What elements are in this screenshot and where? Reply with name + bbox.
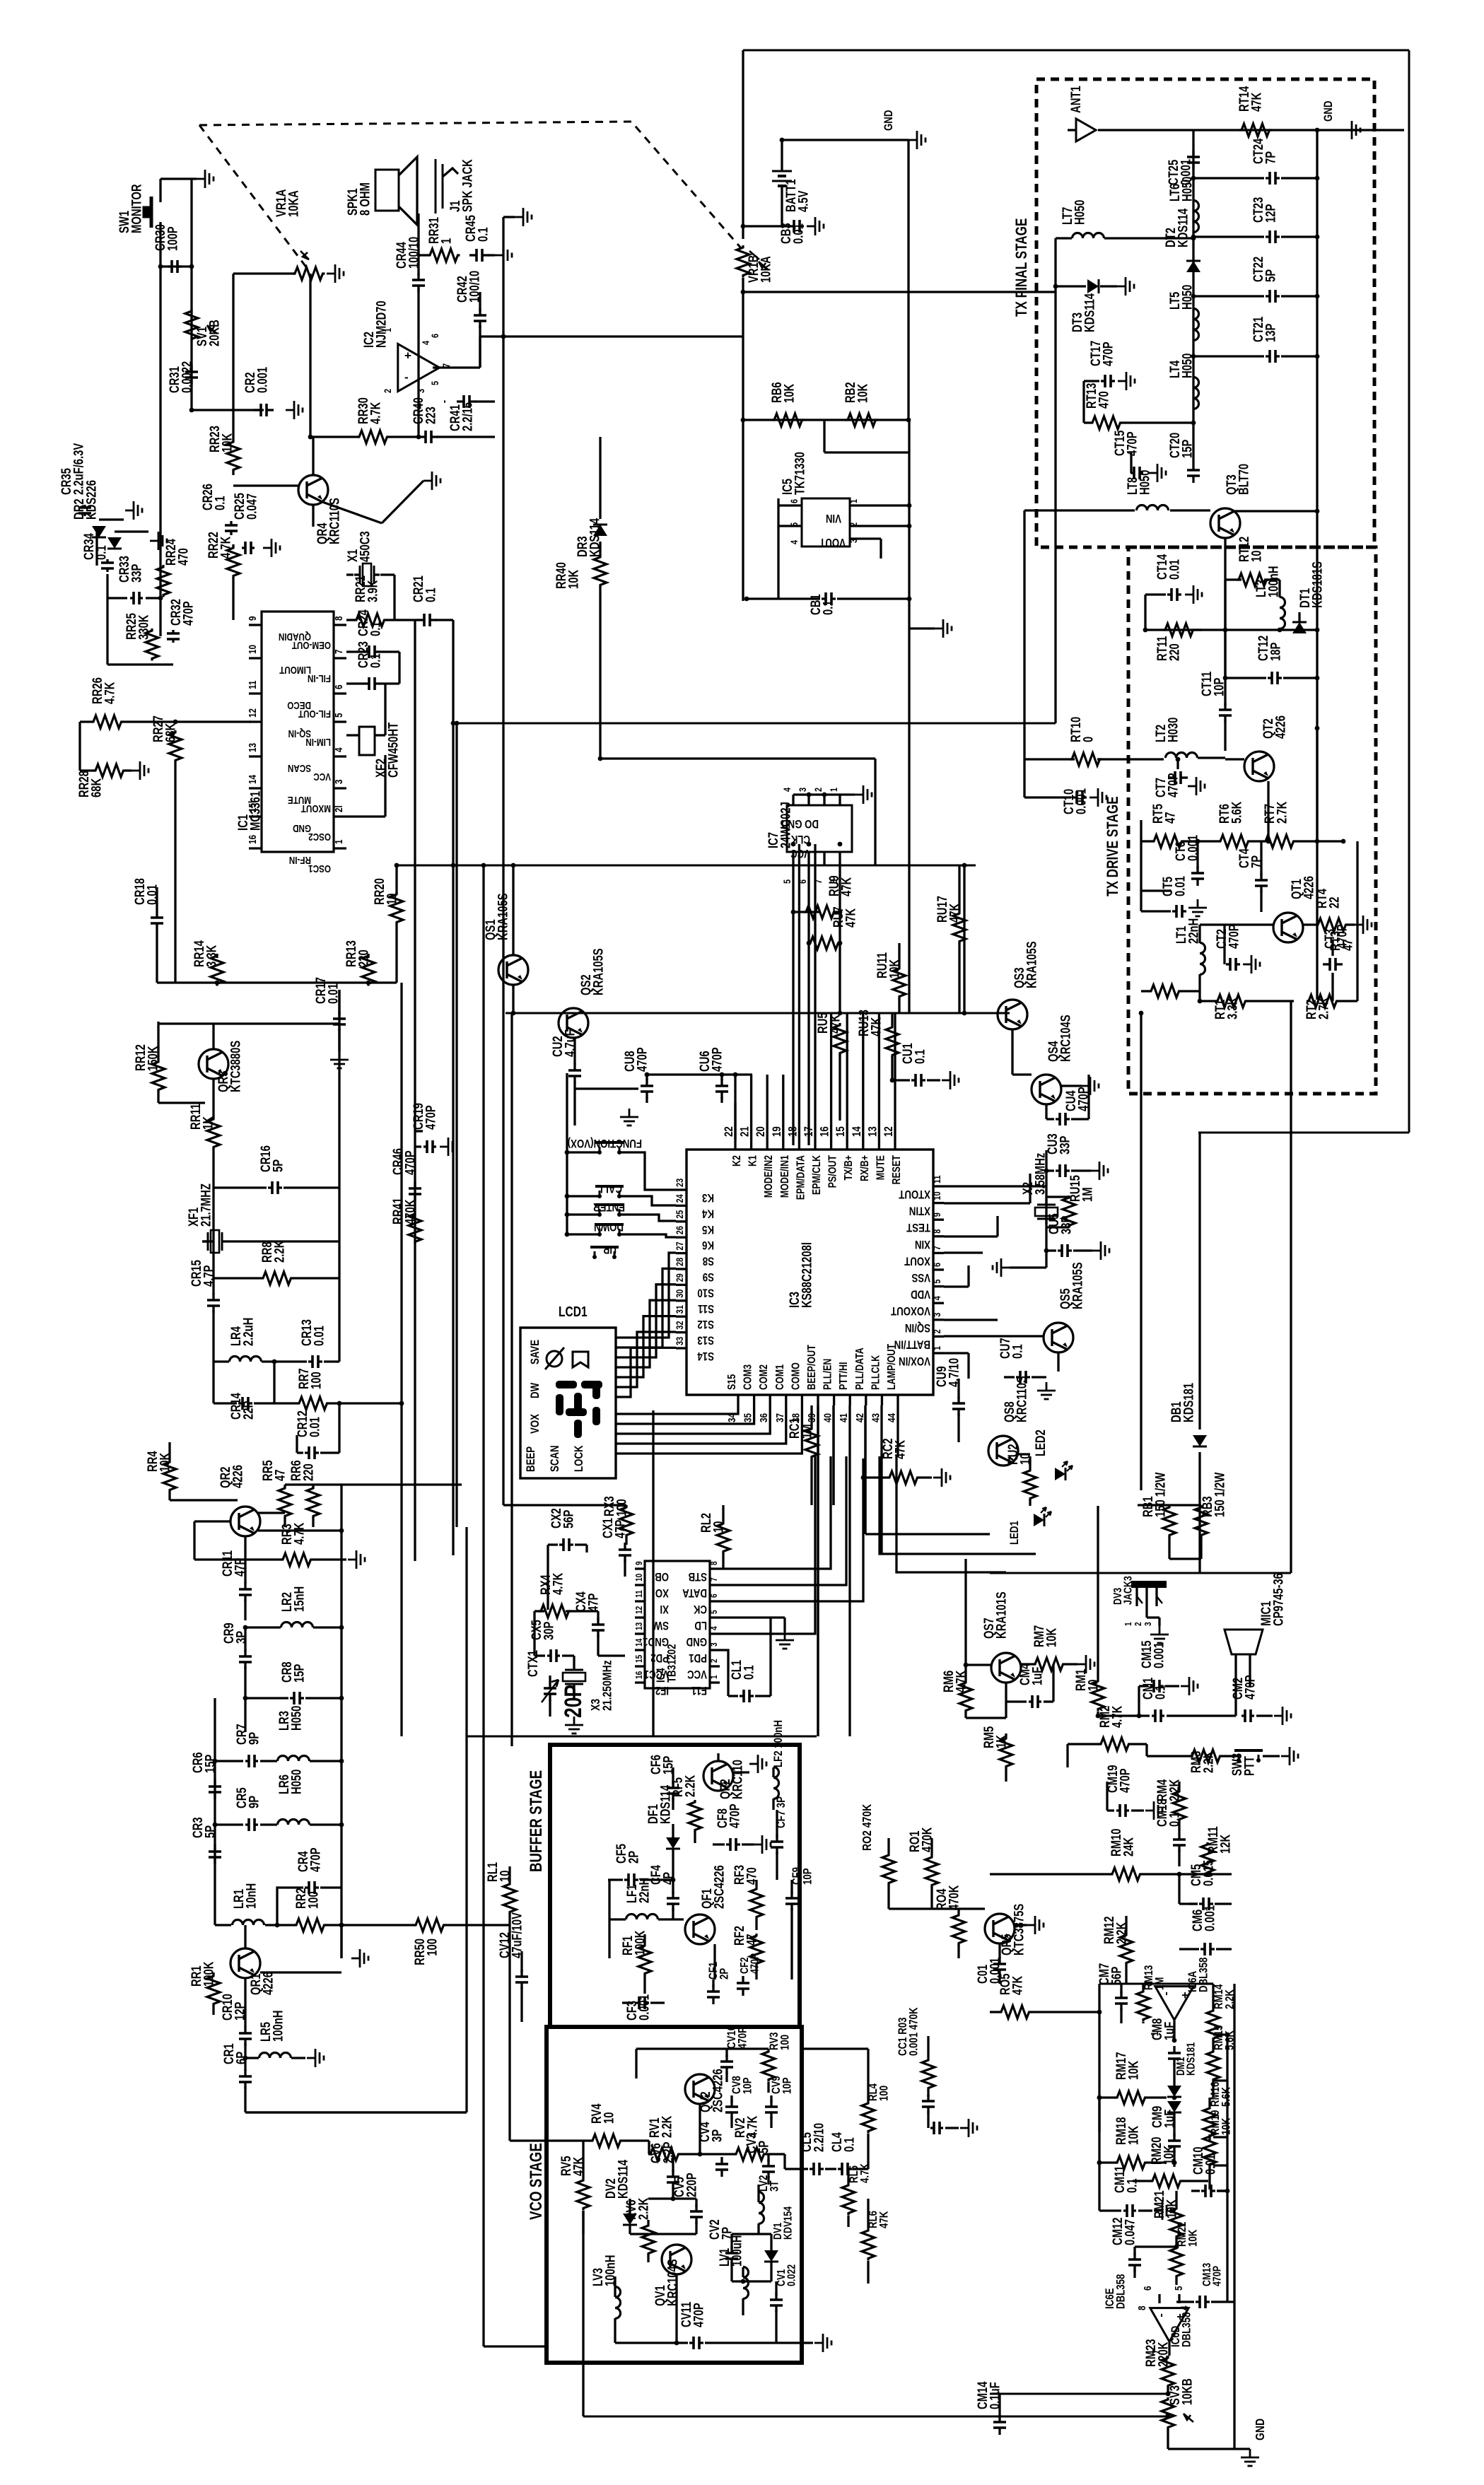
svg-text:31: 31	[674, 1305, 686, 1314]
svg-text:100: 100	[425, 1939, 440, 1956]
svg-text:KDS114: KDS114	[658, 1784, 673, 1824]
svg-text:0.1: 0.1	[1153, 1685, 1168, 1700]
svg-text:VOUT: VOUT	[819, 536, 846, 549]
svg-text:28: 28	[674, 1258, 686, 1266]
svg-text:H030: H030	[1166, 718, 1181, 742]
svg-text:4.7K: 4.7K	[292, 1522, 307, 1545]
svg-text:37: 37	[773, 1413, 785, 1422]
svg-text:4.7P: 4.7P	[201, 1265, 216, 1287]
svg-text:223: 223	[423, 407, 438, 424]
svg-text:4: 4	[782, 788, 793, 792]
svg-text:2.2K: 2.2K	[1201, 1750, 1216, 1773]
svg-text:GND: GND	[1322, 101, 1336, 122]
svg-text:100uH: 100uH	[730, 2235, 744, 2267]
svg-text:22nH: 22nH	[1186, 918, 1201, 944]
svg-text:EPM/CLK: EPM/CLK	[811, 1154, 824, 1195]
svg-text:EPM/DATA: EPM/DATA	[795, 1155, 807, 1200]
svg-text:450C3: 450C3	[358, 531, 373, 562]
svg-text:1: 1	[382, 328, 394, 332]
svg-text:13P: 13P	[1263, 324, 1278, 342]
svg-text:10KA: 10KA	[286, 190, 301, 217]
svg-text:3.3K: 3.3K	[1225, 997, 1240, 1019]
svg-text:100P: 100P	[165, 226, 180, 251]
svg-text:4: 4	[789, 540, 800, 544]
svg-text:FIL-OUT: FIL-OUT	[298, 708, 331, 720]
svg-text:9P: 9P	[247, 1732, 262, 1745]
svg-text:10K: 10K	[855, 383, 870, 403]
svg-text:150 1/2W: 150 1/2W	[1213, 1472, 1227, 1517]
svg-text:0.1: 0.1	[821, 600, 836, 615]
svg-text:KRC104S: KRC104S	[665, 2259, 680, 2306]
svg-text:KDS114: KDS114	[1082, 293, 1097, 332]
svg-text:PLL/DATA: PLL/DATA	[853, 1347, 866, 1390]
svg-text:OEM-OUT: OEM-OUT	[291, 640, 331, 652]
svg-text:K1: K1	[747, 1155, 759, 1167]
svg-text:BLT70: BLT70	[1237, 464, 1251, 495]
svg-text:10K: 10K	[1126, 2060, 1141, 2080]
svg-text:6: 6	[789, 499, 800, 503]
svg-text:14: 14	[247, 775, 259, 784]
svg-text:K4: K4	[702, 1207, 714, 1220]
svg-text:0.01: 0.01	[308, 1417, 322, 1437]
svg-text:TX DRIVE STAGE: TX DRIVE STAGE	[1104, 796, 1122, 896]
svg-text:220: 220	[356, 949, 371, 967]
svg-text:470P: 470P	[749, 1953, 761, 1974]
svg-text:10K: 10K	[158, 1452, 173, 1472]
svg-text:3: 3	[333, 779, 345, 784]
svg-text:KRA101S: KRA101S	[994, 1591, 1009, 1639]
svg-text:470P: 470P	[1166, 773, 1181, 797]
svg-text:12: 12	[882, 1126, 896, 1137]
svg-text:220P: 220P	[684, 2173, 699, 2197]
svg-text:2.2K: 2.2K	[683, 1774, 698, 1797]
svg-text:5P: 5P	[1263, 269, 1278, 282]
svg-text:8: 8	[932, 1229, 943, 1234]
svg-text:LAMP/OUT: LAMP/OUT	[886, 1344, 899, 1390]
svg-text:4: 4	[421, 341, 432, 345]
svg-text:22: 22	[1327, 897, 1342, 908]
svg-text:3: 3	[416, 389, 427, 393]
svg-text:15: 15	[834, 1126, 848, 1137]
svg-text:K5: K5	[702, 1222, 714, 1236]
svg-text:47K: 47K	[1010, 1975, 1025, 1995]
svg-text:OB: OB	[655, 1570, 669, 1584]
svg-text:10K: 10K	[220, 433, 235, 452]
svg-text:47: 47	[1163, 812, 1178, 824]
svg-text:470: 470	[1097, 391, 1111, 409]
svg-text:5: 5	[932, 1280, 943, 1284]
svg-text:100: 100	[306, 1891, 321, 1909]
svg-text:VOX: VOX	[529, 1413, 542, 1434]
svg-text:MODE/IN2: MODE/IN2	[763, 1155, 776, 1198]
svg-text:23: 23	[674, 1179, 686, 1187]
svg-text:10KA: 10KA	[759, 256, 773, 283]
svg-text:470P: 470P	[710, 1047, 725, 1072]
svg-text:30: 30	[674, 1290, 686, 1298]
svg-text:DBL358: DBL358	[1197, 1958, 1210, 1992]
svg-text:8: 8	[1136, 2305, 1148, 2310]
svg-text:220: 220	[1167, 643, 1182, 661]
svg-text:10: 10	[247, 645, 259, 654]
svg-text:CK: CK	[694, 1603, 707, 1616]
svg-text:47K: 47K	[828, 1014, 843, 1034]
svg-text:CP9745-36: CP9745-36	[1271, 1573, 1286, 1626]
svg-text:K3: K3	[702, 1191, 714, 1205]
svg-text:470P: 470P	[1211, 2266, 1224, 2286]
svg-text:KRC110: KRC110	[730, 1760, 745, 1799]
svg-text:1: 1	[709, 1675, 719, 1679]
svg-text:7: 7	[813, 879, 824, 884]
svg-text:1K: 1K	[201, 1116, 216, 1130]
svg-text:4.7K: 4.7K	[103, 682, 117, 704]
svg-text:13: 13	[247, 743, 259, 752]
svg-text:470P: 470P	[403, 1150, 418, 1175]
svg-text:24: 24	[674, 1194, 686, 1203]
svg-text:1M: 1M	[1080, 1187, 1095, 1202]
svg-text:220: 220	[301, 1463, 316, 1481]
svg-text:5P: 5P	[271, 1159, 286, 1172]
svg-text:47K: 47K	[877, 2211, 891, 2228]
svg-text:47K: 47K	[893, 1439, 908, 1459]
svg-text:0.1: 0.1	[368, 621, 383, 636]
svg-text:15l: 15l	[247, 801, 259, 812]
svg-text:PTT/HI: PTT/HI	[838, 1362, 851, 1390]
svg-text:2: 2	[709, 1659, 719, 1663]
svg-text:11: 11	[247, 680, 259, 689]
svg-text:S15: S15	[726, 1374, 739, 1390]
svg-text:47K: 47K	[839, 877, 854, 896]
svg-text:4.7K: 4.7K	[218, 536, 233, 559]
svg-text:3P: 3P	[234, 1631, 249, 1644]
svg-text:9: 9	[247, 616, 259, 621]
svg-text:STB: STB	[688, 1570, 707, 1584]
svg-text:8 OHM: 8 OHM	[358, 182, 373, 216]
svg-text:470K: 470K	[403, 1199, 418, 1224]
svg-text:XO: XO	[655, 1586, 669, 1600]
svg-text:VSS: VSS	[911, 1271, 930, 1285]
svg-text:3: 3	[797, 788, 809, 792]
svg-text:VDD: VDD	[911, 1287, 930, 1301]
svg-text:2P: 2P	[626, 1851, 641, 1864]
svg-text:9: 9	[634, 1561, 644, 1565]
svg-text:4226: 4226	[230, 1465, 245, 1488]
svg-text:SQ/IN: SQ/IN	[905, 1321, 930, 1334]
svg-text:10: 10	[932, 1191, 943, 1200]
svg-text:15P: 15P	[292, 1664, 307, 1683]
svg-text:PLL/EN: PLL/EN	[822, 1359, 834, 1390]
svg-text:TEST: TEST	[906, 1221, 930, 1234]
svg-text:3: 3	[709, 1642, 719, 1647]
svg-text:10P: 10P	[1212, 678, 1227, 696]
svg-text:GND: GND	[1253, 2419, 1267, 2440]
svg-text:K6: K6	[702, 1239, 714, 1252]
svg-text:44: 44	[886, 1413, 898, 1422]
svg-text:68K: 68K	[89, 778, 104, 797]
svg-text:LED1: LED1	[1008, 1521, 1022, 1545]
svg-text:S11: S11	[698, 1302, 714, 1315]
svg-text:MUTE: MUTE	[875, 1155, 887, 1180]
svg-text:0.1: 0.1	[213, 496, 228, 510]
svg-text:4.7uF: 4.7uF	[563, 1029, 578, 1057]
svg-text:47: 47	[744, 1934, 759, 1946]
svg-text:2SC4226: 2SC4226	[712, 1865, 727, 1909]
svg-text:BEEP/OUT: BEEP/OUT	[806, 1345, 819, 1390]
svg-text:6: 6	[797, 879, 809, 884]
svg-text:470P: 470P	[423, 1105, 438, 1130]
svg-text:24K: 24K	[1121, 1837, 1136, 1857]
svg-text:25: 25	[674, 1210, 686, 1219]
svg-text:LF2 100nH: LF2 100nH	[772, 1720, 785, 1767]
svg-text:KDS114: KDS114	[616, 2159, 631, 2199]
svg-text:470P: 470P	[1101, 341, 1116, 366]
svg-text:6: 6	[932, 1263, 943, 1267]
svg-text:15nH: 15nH	[292, 1586, 307, 1612]
svg-text:35: 35	[742, 1413, 754, 1422]
svg-text:0.0022: 0.0022	[180, 361, 194, 393]
svg-text:42: 42	[853, 1413, 865, 1422]
svg-text:0: 0	[1081, 737, 1096, 742]
svg-text:H050: H050	[1138, 470, 1152, 495]
svg-text:56P: 56P	[1109, 1967, 1124, 1985]
svg-text:470P: 470P	[1125, 431, 1140, 456]
svg-text:K2: K2	[731, 1155, 744, 1167]
svg-text:14: 14	[850, 1126, 863, 1137]
svg-text:2: 2	[813, 788, 824, 792]
svg-text:47P: 47P	[586, 1594, 601, 1612]
svg-text:KTC3880S: KTC3880S	[228, 1041, 243, 1092]
svg-text:470P: 470P	[181, 601, 196, 626]
svg-text:7: 7	[932, 1246, 943, 1250]
svg-text:KRC104S: KRC104S	[1058, 1015, 1073, 1062]
svg-text:SCAN: SCAN	[549, 1445, 562, 1472]
svg-text:7P: 7P	[1249, 855, 1264, 868]
svg-text:0.1: 0.1	[842, 2137, 857, 2152]
svg-text:27: 27	[674, 1241, 686, 1250]
svg-text:5.6K: 5.6K	[1229, 801, 1244, 824]
svg-text:470P: 470P	[635, 1047, 650, 1072]
svg-text:0.1: 0.1	[1010, 1344, 1025, 1359]
svg-text:12: 12	[634, 1606, 644, 1614]
svg-text:ANT1: ANT1	[1068, 86, 1083, 113]
svg-text:KTC3875S: KTC3875S	[1012, 1904, 1027, 1955]
svg-text:5: 5	[709, 1610, 719, 1614]
svg-text:22: 22	[723, 1126, 736, 1137]
svg-text:1: 1	[932, 1346, 943, 1350]
svg-text:XIN: XIN	[915, 1237, 930, 1251]
svg-text:COM1: COM1	[773, 1364, 786, 1390]
svg-text:0.01: 0.01	[1173, 876, 1188, 896]
svg-text:2l: 2l	[333, 805, 345, 812]
svg-text:PTT: PTT	[1242, 1756, 1257, 1776]
svg-text:2.2uF/6.3V: 2.2uF/6.3V	[71, 443, 86, 495]
svg-text:47P: 47P	[233, 1558, 247, 1577]
svg-text:VOX/IN: VOX/IN	[899, 1355, 930, 1368]
svg-text:2.7K: 2.7K	[1275, 801, 1290, 824]
svg-text:100: 100	[877, 2086, 891, 2101]
svg-text:47P: 47P	[613, 1520, 628, 1538]
svg-text:COMO: COMO	[790, 1362, 802, 1390]
svg-text:RESET: RESET	[891, 1155, 904, 1185]
svg-text:0.047: 0.047	[245, 493, 259, 520]
svg-text:7: 7	[709, 1577, 719, 1581]
svg-text:100nH: 100nH	[271, 2011, 286, 2042]
svg-text:+: +	[404, 349, 411, 362]
svg-text:6P: 6P	[234, 2052, 249, 2064]
svg-text:16: 16	[818, 1126, 831, 1137]
svg-text:26: 26	[674, 1226, 686, 1234]
svg-text:COM2: COM2	[758, 1364, 771, 1390]
svg-text:0.1: 0.1	[476, 227, 491, 242]
svg-text:100: 100	[614, 1499, 629, 1516]
svg-text:0.001: 0.001	[1152, 1642, 1167, 1668]
svg-text:10: 10	[711, 1521, 726, 1533]
svg-text:0.1: 0.1	[1125, 2178, 1140, 2193]
svg-text:SW: SW	[653, 1619, 669, 1632]
svg-text:DATA: DATA	[682, 1586, 707, 1600]
svg-text:S12: S12	[697, 1318, 714, 1331]
svg-text:OSC2: OSC2	[308, 831, 331, 843]
svg-text:0.01: 0.01	[312, 1326, 327, 1346]
svg-text:VCC1: VCC1	[643, 1668, 669, 1681]
svg-text:VCC: VCC	[687, 1668, 707, 1681]
svg-text:KDS181S: KDS181S	[1310, 561, 1325, 608]
svg-text:MXOUT: MXOUT	[300, 803, 331, 815]
svg-text:XTIN: XTIN	[909, 1204, 930, 1217]
svg-text:10P: 10P	[801, 1868, 814, 1885]
svg-text:1uF: 1uF	[1162, 2022, 1177, 2040]
svg-text:47K: 47K	[843, 908, 858, 928]
svg-text:2: 2	[932, 1329, 943, 1333]
svg-text:1: 1	[848, 499, 860, 503]
svg-text:LIM-IN: LIM-IN	[305, 737, 331, 749]
svg-text:1uF: 1uF	[1162, 2110, 1177, 2128]
svg-text:33P: 33P	[1058, 1136, 1073, 1154]
svg-text:RO2 470K: RO2 470K	[860, 1803, 874, 1851]
svg-text:H050: H050	[1073, 200, 1087, 225]
svg-text:TK71330: TK71330	[793, 452, 807, 495]
svg-text:KRA105S: KRA105S	[1070, 1262, 1085, 1309]
svg-text:4: 4	[709, 1626, 719, 1630]
svg-text:4.7K: 4.7K	[858, 2163, 872, 2183]
svg-text:2.2/16: 2.2/16	[460, 402, 475, 431]
svg-text:33P: 33P	[129, 564, 144, 583]
svg-text:3.58MHz: 3.58MHz	[1033, 1153, 1048, 1195]
svg-text:-: -	[1156, 2313, 1169, 2317]
svg-text:SAVE: SAVE	[529, 1340, 542, 1364]
svg-text:2: 2	[382, 389, 394, 393]
svg-text:47K: 47K	[1249, 92, 1264, 112]
svg-text:29: 29	[674, 1273, 686, 1282]
svg-text:4: 4	[1179, 2305, 1191, 2310]
svg-text:LCD1: LCD1	[559, 1304, 588, 1319]
svg-text:XTOUT: XTOUT	[899, 1188, 930, 1201]
svg-text:16: 16	[247, 835, 259, 844]
svg-text:0.1: 0.1	[1167, 1812, 1182, 1827]
svg-text:KRA105S: KRA105S	[1024, 941, 1039, 988]
svg-text:XOUT: XOUT	[904, 1254, 930, 1268]
svg-text:KRC110S: KRC110S	[1015, 1376, 1029, 1422]
svg-text:12: 12	[247, 708, 259, 718]
svg-text:0.001: 0.001	[255, 367, 270, 393]
svg-text:150 1/2W: 150 1/2W	[1153, 1472, 1168, 1517]
svg-text:CFW450HT: CFW450HT	[386, 722, 401, 778]
svg-text:68K: 68K	[163, 723, 178, 742]
svg-text:10P: 10P	[741, 2077, 754, 2094]
svg-text:47: 47	[273, 1470, 288, 1481]
svg-text:S10: S10	[697, 1286, 714, 1299]
svg-text:100/10: 100/10	[407, 237, 421, 269]
svg-text:VIN: VIN	[826, 512, 841, 525]
svg-text:0.1: 0.1	[913, 1049, 928, 1064]
svg-text:0.022: 0.022	[785, 2264, 798, 2286]
svg-text:10K: 10K	[1044, 1627, 1059, 1647]
svg-text:5P: 5P	[203, 1825, 218, 1838]
svg-text:40: 40	[822, 1413, 834, 1422]
svg-text:H050: H050	[289, 1706, 304, 1731]
svg-text:BATT/IN: BATT/IN	[894, 1338, 930, 1351]
svg-text:2P: 2P	[718, 1968, 731, 1980]
svg-text:12K: 12K	[1218, 1834, 1233, 1854]
svg-text:VCO STAGE: VCO STAGE	[527, 2143, 546, 2220]
svg-text:3: 3	[1143, 1622, 1153, 1626]
svg-text:470P: 470P	[736, 2027, 749, 2049]
svg-text:10nH: 10nH	[244, 1883, 259, 1909]
svg-text:1: 1	[439, 238, 454, 244]
svg-text:4.7K: 4.7K	[368, 402, 383, 424]
svg-text:GND: GND	[882, 110, 896, 131]
svg-text:LOCK: LOCK	[573, 1445, 586, 1472]
svg-text:13: 13	[866, 1126, 880, 1137]
svg-text:32: 32	[674, 1321, 686, 1329]
svg-text:10: 10	[602, 2112, 617, 2124]
svg-text:0.001: 0.001	[1203, 1905, 1217, 1931]
svg-text:2.2K: 2.2K	[272, 1240, 287, 1263]
svg-text:DBL358: DBL358	[1180, 2312, 1193, 2347]
svg-text:10: 10	[385, 894, 399, 905]
svg-text:6: 6	[1142, 2286, 1154, 2291]
svg-text:10KB: 10KB	[1180, 2378, 1195, 2405]
svg-text:43: 43	[870, 1413, 882, 1422]
svg-text:12P: 12P	[1263, 204, 1278, 223]
svg-text:56P: 56P	[561, 1510, 576, 1528]
svg-text:CTX1: CTX1	[525, 1650, 540, 1677]
svg-text:7P: 7P	[1263, 151, 1278, 164]
svg-text:470P: 470P	[308, 1847, 323, 1872]
svg-text:5: 5	[430, 381, 441, 385]
svg-text:0.1: 0.1	[368, 653, 383, 668]
svg-text:21.250MHz: 21.250MHz	[600, 1660, 614, 1711]
svg-text:100: 100	[309, 1372, 324, 1389]
svg-text:10K: 10K	[1126, 2125, 1141, 2145]
svg-text:H050: H050	[289, 1770, 304, 1794]
svg-text:9P: 9P	[247, 1796, 262, 1808]
svg-text:10K: 10K	[566, 569, 581, 589]
svg-text:DBL358: DBL358	[1114, 2274, 1128, 2309]
svg-text:KDS114: KDS114	[1176, 208, 1191, 247]
svg-text:470P: 470P	[1227, 924, 1241, 949]
svg-text:3.9K: 3.9K	[366, 580, 380, 602]
svg-text:22P: 22P	[241, 1401, 256, 1420]
svg-text:10: 10	[634, 1574, 644, 1581]
svg-text:F11: F11	[691, 1684, 707, 1697]
svg-text:470P: 470P	[1335, 924, 1350, 949]
svg-text:0.01: 0.01	[1167, 559, 1182, 580]
svg-text:0.001: 0.001	[1074, 788, 1089, 814]
svg-text:4.7K: 4.7K	[551, 1572, 566, 1595]
svg-text:33: 33	[674, 1337, 686, 1345]
svg-text:S14: S14	[697, 1350, 714, 1363]
svg-text:3P: 3P	[710, 2129, 725, 2142]
